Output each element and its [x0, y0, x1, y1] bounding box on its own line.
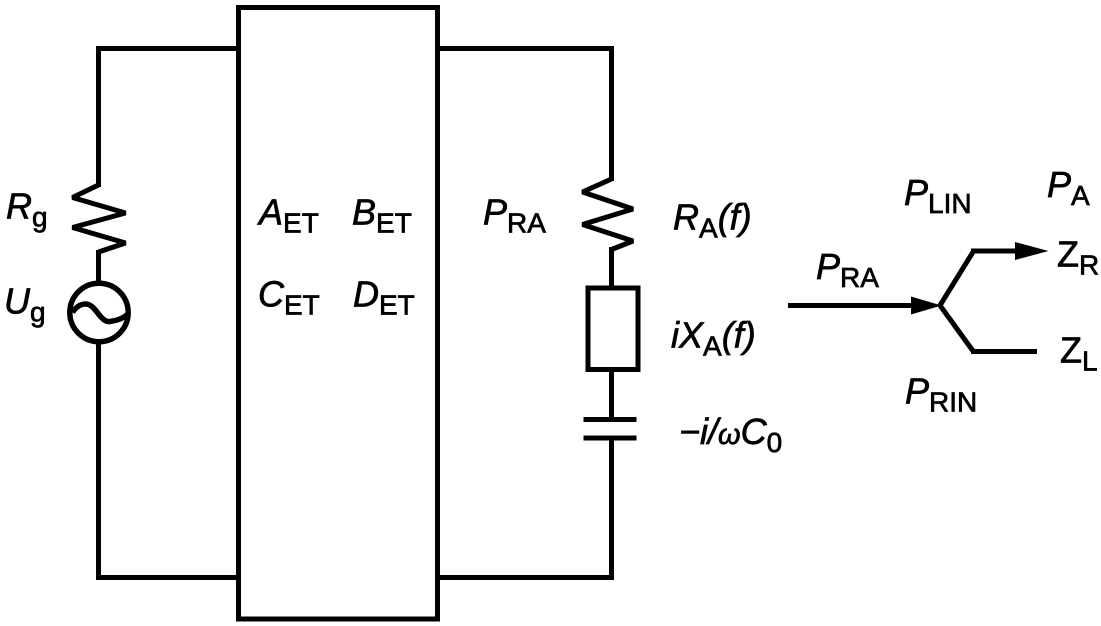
- upper branch arrowhead: [1015, 242, 1049, 260]
- wire bottom-left horizontal: [96, 575, 239, 580]
- wire capacitor to bottom: [609, 436, 614, 580]
- source Ug sine wave: [73, 304, 128, 322]
- resistor Rg: [73, 185, 126, 252]
- two-port network box U1: [239, 8, 438, 620]
- wire right vertical upper: [609, 46, 614, 181]
- upper branch horizontal: [971, 249, 1016, 254]
- wire reactance to capacitor: [609, 367, 614, 420]
- wire resistor to source: [96, 250, 101, 285]
- arrow PRA shaft: [788, 303, 913, 308]
- wire left vertical upper: [96, 46, 101, 187]
- arrow PRA head: [911, 297, 942, 315]
- wire source to bottom: [96, 340, 101, 580]
- resistor RA: [583, 179, 634, 250]
- wire top-left horizontal: [96, 46, 239, 51]
- wire RA to reactance: [609, 247, 614, 288]
- wire bottom-right horizontal: [437, 575, 614, 580]
- fork upper diagonal: [939, 252, 973, 307]
- lower branch horizontal: [971, 349, 1037, 354]
- fork lower diagonal: [939, 304, 973, 351]
- capacitor C0 top plate: [584, 417, 637, 422]
- wire top-right horizontal: [437, 46, 614, 51]
- reactance box iXA: [588, 288, 638, 370]
- capacitor C0 bottom plate: [584, 436, 637, 441]
- source Ug circle: [70, 283, 128, 341]
